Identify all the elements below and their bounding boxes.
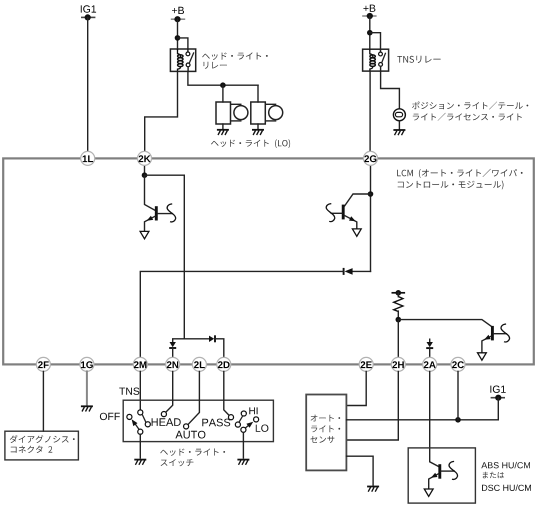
wire junction down to left headlight <box>222 85 224 102</box>
pin 2N <box>166 357 180 371</box>
wire 2G line to middle horizontal run toward 2M <box>352 270 370 272</box>
light switch movable arm (points to OFF) <box>134 423 139 430</box>
pin 2H <box>391 357 405 371</box>
wire left headlight to ground <box>222 124 224 129</box>
lamp: headlight LO right <box>251 102 265 124</box>
ground below sensor <box>367 487 379 492</box>
wire stub with diode D3 above pin 2A <box>429 339 431 342</box>
switch contact: HI <box>241 411 246 416</box>
node: R1 bottom junction <box>396 317 402 323</box>
module box: LCM (auto light / wiper control module) <box>3 158 534 364</box>
wire TNS relay contact to position lights <box>381 71 400 109</box>
node: +B branch junction <box>175 35 181 41</box>
diode D3 (pin 2A clamp, cathode down) <box>427 342 433 347</box>
wire pin 2G down internal <box>370 165 372 271</box>
wire IG1 to sensor supply bus <box>346 398 498 420</box>
internal ground of Q3 emitter <box>478 353 487 360</box>
pin 2F <box>36 357 50 371</box>
wire IG1 to pin 1L <box>87 17 89 151</box>
label: LCM module name <box>397 169 522 178</box>
internal ground of Q2 emitter <box>352 229 361 236</box>
switch contact: PASS (from 2D) <box>224 371 229 415</box>
wire pin 1G to ground <box>86 371 88 404</box>
diode D4 (2G to 2M, cathode left) <box>343 268 345 275</box>
wire junction to transistor Q3 collector <box>398 320 491 326</box>
wire junction to relay contact input <box>178 38 188 50</box>
relay K2 coil <box>370 49 373 57</box>
box: diagnosis connector 2 <box>5 431 79 460</box>
internal ground of Q4 emitter <box>424 489 433 496</box>
transistor Q4 (in ABS/DSC unit) <box>438 464 441 479</box>
pin 2L <box>192 357 206 371</box>
wire relay K1 contact to headlights <box>188 71 258 85</box>
switch common contact (light switch) <box>138 429 143 434</box>
wire 2K junction right and down to switch diodes <box>145 175 185 339</box>
wire relay K1 coil to pin 2K <box>145 71 178 151</box>
wire to right headlight <box>257 85 259 102</box>
wire diode D1 to pin 2N <box>172 348 174 358</box>
label: ABS or DSC unit <box>481 462 530 469</box>
power source IG1 (top left) <box>81 16 95 18</box>
wire diode D2 to pin 2D <box>215 339 224 358</box>
wire junction to TNS relay contact input <box>370 33 381 50</box>
label HEAD position <box>152 418 181 426</box>
node: 2C junction on IG1 bus <box>455 417 461 423</box>
pin 2M <box>133 357 147 371</box>
ground below right headlight <box>252 130 264 135</box>
ground below left headlight <box>217 130 229 135</box>
switch contact: OFF <box>127 414 132 419</box>
ground below position lamp <box>393 130 405 135</box>
label LO position <box>256 425 269 432</box>
wire dimmer common to ground <box>242 433 244 458</box>
relay K1 coil <box>178 49 181 57</box>
internal ground of Q1 emitter <box>140 231 149 238</box>
label: TNS relay <box>397 56 440 63</box>
wire +B down to TNS relay coil <box>369 16 371 50</box>
wire to diode D2 <box>184 338 209 340</box>
pin 2C <box>451 357 465 371</box>
switch contact: AUTO (from 2L) <box>188 371 199 424</box>
power source +B (headlight relay) <box>171 18 185 20</box>
transistor Q3 (auto light input) <box>491 326 494 341</box>
pin 2D <box>217 357 231 371</box>
label: diagnosis connector 2 <box>10 435 75 443</box>
label HI position <box>249 407 257 414</box>
wire sensor to ground <box>346 456 373 485</box>
label PASS position <box>202 419 230 427</box>
wire +B down to relay coil <box>177 19 179 49</box>
label: headlight LO <box>211 139 290 148</box>
dimmer switch movable arm (points to LO) <box>245 425 249 429</box>
relay K1 contact switch <box>187 49 189 52</box>
relay K1 box (headlight relay) <box>170 49 195 71</box>
pin 2A <box>423 357 437 371</box>
power source IG1 (bottom right) <box>491 397 505 399</box>
wire position lamp to ground <box>398 121 400 129</box>
label: headlight switch <box>160 449 225 456</box>
pin 2G <box>364 151 378 165</box>
relay K2 box (TNS relay) <box>363 49 389 71</box>
wire right headlight to ground <box>257 124 259 129</box>
wire pin 2A to ABS/DSC unit <box>430 371 439 466</box>
label: headlight relay <box>202 52 268 60</box>
switch common contact (dimmer) <box>241 427 246 432</box>
box: headlight switch <box>123 400 273 441</box>
label TNS position <box>119 388 139 395</box>
ground below dimmer switch <box>237 460 249 465</box>
switch contact: HEAD (from 2N) <box>166 371 173 412</box>
internal supply bar above resistor R1 <box>392 292 406 294</box>
power source +B (TNS relay) <box>362 15 376 17</box>
wire pin 2M to TNS contact <box>139 371 141 409</box>
wire diode D3 to pin 2A <box>429 348 431 357</box>
switch contact pair bridge HI <box>239 416 243 422</box>
wire to diode D1 <box>173 339 185 343</box>
node: 2K internal junction <box>142 172 148 178</box>
pin 2E <box>359 357 373 371</box>
label AUTO position <box>175 431 205 439</box>
wire pin 2K to internal node <box>144 165 146 175</box>
node: headlight feed junction <box>220 82 226 88</box>
wire TNS relay coil to pin 2G <box>369 71 371 151</box>
lamp: headlight LO left <box>216 102 231 124</box>
wire diode D4 to pin 2M <box>140 271 343 357</box>
label: position light / tail light / license light <box>412 102 528 110</box>
relay K2 contact switch <box>380 49 382 52</box>
wire junction to transistor Q1 collector <box>145 175 156 210</box>
node: Q2 collector junction <box>368 191 374 197</box>
wire pin 2H to auto light sensor <box>346 371 398 440</box>
wire pin 2C to IG1 bus <box>457 371 459 419</box>
resistor R1 (pull-up) <box>397 293 399 297</box>
ground below pin 1G <box>81 406 93 411</box>
box: auto light sensor <box>306 395 346 471</box>
transistor Q2 (TNS driver) <box>345 194 371 206</box>
box: ABS HU/CM or DSC HU/CM <box>408 448 475 503</box>
wire pin 2E to auto light sensor <box>346 371 366 405</box>
wire junction to pin 2H <box>397 320 399 358</box>
transistor Q1 (headlight driver) <box>155 206 158 220</box>
pin 1L <box>81 151 95 165</box>
pin 1G <box>80 357 94 371</box>
pin 2K <box>138 151 152 165</box>
switch contact pair bridge TNS <box>142 415 146 423</box>
lamp: position/tail/license lights <box>393 109 405 121</box>
label: auto light sensor <box>311 415 341 422</box>
switch contact: TNS (from 2M) <box>138 410 143 415</box>
ground below light switch <box>134 460 146 465</box>
node: +B TNS branch junction <box>367 30 373 36</box>
switch contact: LO <box>254 417 259 422</box>
wire pin 2F to diagnosis connector <box>42 371 44 431</box>
diode D1 (to pin 2N, cathode down) <box>170 342 176 347</box>
label OFF position <box>100 413 120 420</box>
diode D2 (to pin 2D, cathode right) <box>209 336 214 342</box>
wire light switch common to ground <box>139 435 141 458</box>
